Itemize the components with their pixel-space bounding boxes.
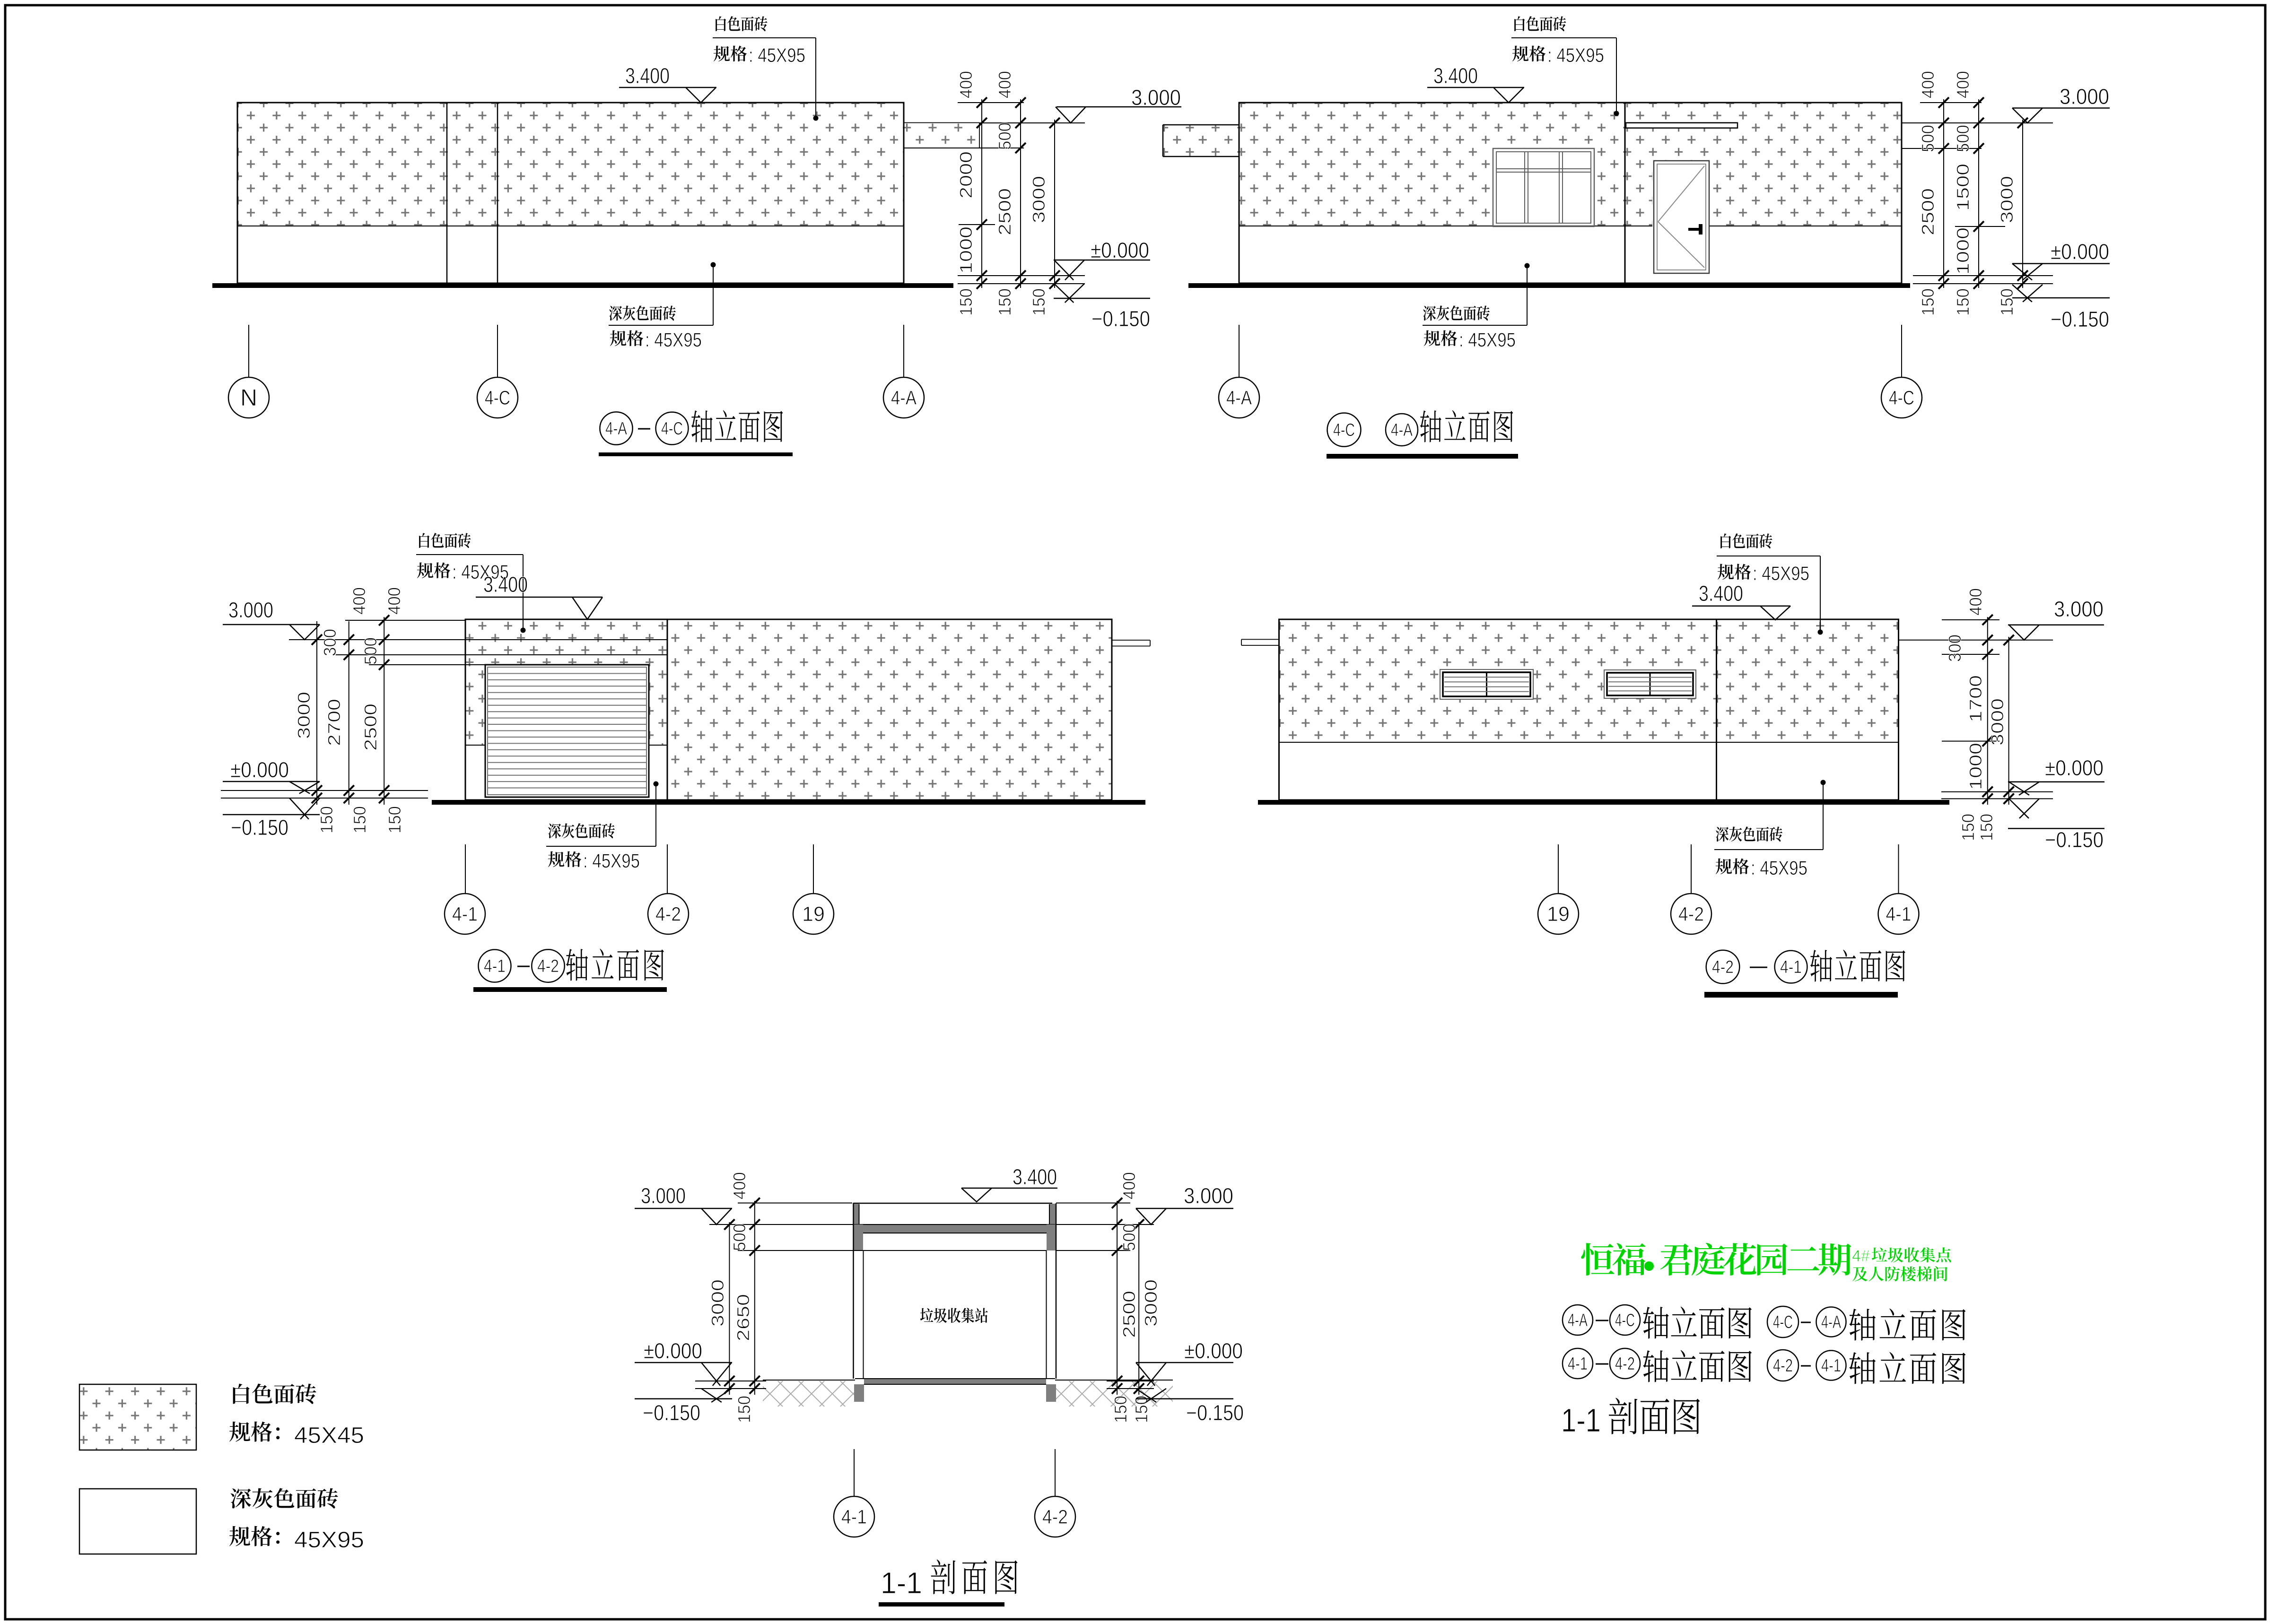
elev2 label dark tile (1423, 305, 1527, 351)
svg-text:150: 150 (1958, 814, 1978, 841)
elev1 axis stem 4-C (497, 325, 498, 377)
section parapet column left (854, 1204, 859, 1225)
elev1 axis stem N (248, 325, 249, 377)
svg-text:3000: 3000 (294, 692, 314, 739)
elev3 axis bubble 19 (793, 894, 834, 934)
svg-text:1700: 1700 (1966, 675, 1985, 722)
section dim 150 left (734, 1396, 754, 1423)
section dim 2650 left (733, 1294, 753, 1341)
svg-text:400: 400 (349, 587, 369, 615)
svg-text:1-1: 1-1 (881, 1566, 922, 1600)
project subtitle green 1 (1852, 1247, 1951, 1265)
elev2 leader dot white tile (1614, 38, 1619, 116)
elev4 dim 150 x2 (1958, 814, 1996, 841)
elev2 door M1 (1654, 161, 1709, 273)
svg-text:400: 400 (956, 71, 976, 98)
section level 3.000 left (635, 1183, 732, 1225)
svg-text:400: 400 (1918, 71, 1938, 98)
svg-text:2650: 2650 (733, 1294, 753, 1341)
elev2 pattern mask window (1493, 122, 1738, 226)
svg-text:4-1: 4-1 (1821, 1356, 1841, 1376)
elev2 dim 150 x3 (1918, 288, 2017, 316)
svg-text:400: 400 (1953, 71, 1973, 98)
svg-text:−0.150: −0.150 (2051, 307, 2109, 331)
elev2 extension lines (1902, 103, 2053, 284)
section dim 400 left (730, 1172, 749, 1199)
elev2 dim 3000 (1997, 176, 2017, 223)
svg-text:4-C: 4-C (1615, 1311, 1635, 1330)
elev4 dim 1000 (1966, 743, 1985, 790)
elev4 wall outline (1279, 619, 1899, 800)
elev2 dim line1 (1938, 97, 1949, 289)
elev1 level +-0.000 (1054, 238, 1150, 280)
svg-text:150: 150 (734, 1396, 754, 1423)
svg-text:150: 150 (1132, 1396, 1151, 1423)
svg-text:3.400: 3.400 (1699, 581, 1743, 606)
section footing right (1046, 1384, 1056, 1402)
section ground line left (763, 1380, 855, 1381)
svg-text:−0.150: −0.150 (2045, 827, 2104, 852)
svg-text:400: 400 (1966, 588, 1985, 616)
svg-text:1000: 1000 (956, 226, 976, 274)
svg-text:4-A: 4-A (605, 419, 628, 439)
elev1 dim text 150 x3 (956, 288, 1048, 316)
elev3 roller shutter door (485, 665, 649, 797)
svg-text:150: 150 (350, 806, 369, 834)
elev4 extension lines (1899, 620, 2053, 799)
elev4 axis bubble 19 (1538, 894, 1579, 934)
elev4 title bubbles (1706, 950, 1807, 984)
svg-text:150: 150 (385, 806, 404, 834)
section footing left (854, 1384, 864, 1402)
legend white tile spec (229, 1422, 364, 1448)
svg-text:±0.000: ±0.000 (2045, 756, 2104, 780)
elev3 label dark tile (546, 823, 656, 872)
elev1 title text (691, 410, 783, 443)
svg-text:2000: 2000 (956, 151, 976, 199)
svg-text:150: 150 (956, 288, 976, 316)
section dim 3000 left (708, 1279, 727, 1327)
svg-text:500: 500 (1918, 125, 1938, 152)
svg-text:4#: 4# (1852, 1247, 1870, 1265)
section level 3.400 (961, 1164, 1057, 1202)
elev3 extension lines (221, 620, 485, 798)
section title (881, 1559, 1018, 1600)
svg-text:400: 400 (1119, 1172, 1139, 1199)
section dim right line1 (1112, 1198, 1122, 1395)
legend dark tile spec (229, 1526, 364, 1553)
elev2 title text (1420, 410, 1513, 443)
elev3 garage pattern (466, 620, 667, 746)
elev1 tile band separator line (237, 226, 904, 226)
elev4 pattern mask louvers (1440, 669, 1696, 699)
elev1 column edge line x=1052 (axis 4-C) (497, 103, 498, 283)
elev2 label white tile (1511, 16, 1616, 66)
elev3 dim 400s (349, 587, 404, 615)
section wall left (854, 1203, 864, 1379)
section level -0.150 right (1136, 1389, 1244, 1425)
section beam block right (1047, 1225, 1056, 1251)
svg-text:150: 150 (1029, 288, 1048, 316)
svg-text:4-C: 4-C (1333, 420, 1355, 440)
svg-text:3.000: 3.000 (641, 1183, 686, 1208)
section roof top line (853, 1203, 1052, 1204)
legend dark tile swatch (79, 1489, 196, 1554)
svg-text:±0.000: ±0.000 (2051, 239, 2109, 264)
section dim 150 right x2 (1111, 1396, 1151, 1423)
svg-text:3000: 3000 (708, 1279, 727, 1327)
elev4 leader dot white tile (1818, 556, 1823, 635)
svg-text:150: 150 (1997, 288, 2017, 316)
svg-text:3.400: 3.400 (483, 572, 528, 597)
svg-text:3.000: 3.000 (2060, 84, 2109, 109)
elev4 roof slab protrusion left (1241, 639, 1279, 645)
elev4 title text (1810, 950, 1905, 982)
section wall right (1047, 1203, 1056, 1379)
svg-text:150: 150 (1953, 288, 1973, 316)
elev2 level +-0.000 (2012, 239, 2110, 280)
elev1 dim text 3000 (1029, 176, 1048, 223)
svg-text:4-A: 4-A (1226, 386, 1252, 408)
elev3 dim 2500 (361, 703, 380, 751)
svg-text:4-2: 4-2 (1615, 1354, 1635, 1374)
svg-text:4-2: 4-2 (655, 903, 681, 925)
elev3 title underline (473, 987, 667, 992)
svg-text:45X95: 45X95 (294, 1528, 364, 1553)
elev3 axis stem 4-2 (667, 844, 668, 894)
svg-text:3.000: 3.000 (228, 598, 273, 622)
elev2 title bubbles (1327, 413, 1418, 447)
svg-text:19: 19 (802, 903, 825, 926)
svg-text:4-C: 4-C (485, 386, 510, 408)
section level +-0.000 right (1136, 1338, 1243, 1386)
svg-text:400: 400 (384, 587, 404, 615)
svg-text:−0.150: −0.150 (643, 1400, 700, 1425)
svg-text:4-2: 4-2 (1678, 903, 1704, 925)
elev4 dim line2 (2004, 635, 2014, 805)
elev2 dim 1000 (1953, 227, 1973, 275)
elev2 axis stem 4-A (1239, 325, 1240, 377)
elev2 dim line2 (1973, 97, 1984, 289)
section level 3.000 right (1136, 1183, 1233, 1225)
svg-text:4-2: 4-2 (1042, 1505, 1068, 1528)
section ground line right (1055, 1380, 1173, 1381)
elev4 leader dot dark tile (1821, 780, 1826, 850)
svg-text:1500: 1500 (1953, 164, 1973, 211)
elev4 level 3.400 (1692, 581, 1790, 620)
elev4 dim 1700 (1966, 675, 1985, 722)
elev3 dim 3000 (294, 692, 314, 739)
elev2 dim 2500 (1918, 188, 1938, 235)
elev2 dim line3 (2017, 118, 2028, 289)
elev1 ground line (212, 283, 953, 288)
elev1 dim text 500 (995, 122, 1014, 150)
elev1 level 3.400 (619, 63, 716, 103)
elev3 roof slab protrusion right (1112, 640, 1150, 646)
elev1 label dark tile text (609, 305, 713, 351)
elev4 title underline (1704, 992, 1898, 998)
drawing list row 2 (1563, 1348, 1965, 1384)
elev1 wall outline (237, 103, 904, 283)
svg-text:N: N (240, 384, 257, 411)
svg-text:4-A: 4-A (891, 386, 917, 408)
svg-text:±0.000: ±0.000 (1091, 238, 1149, 262)
svg-text:3.000: 3.000 (2054, 597, 2104, 621)
elev1 leader dot white tile (813, 38, 819, 121)
elev3 axis bubble 4-1 (445, 894, 485, 934)
svg-text:: 45X95: : 45X95 (1753, 562, 1809, 584)
svg-text:±0.000: ±0.000 (644, 1338, 702, 1363)
elev3 dim 150 x3 (317, 806, 404, 834)
elev1 axis bubble N (228, 377, 269, 418)
section title underline (879, 1602, 1004, 1607)
section dim 400 right (1119, 1172, 1139, 1199)
section dim 500 left (730, 1224, 749, 1251)
section level -0.150 left (635, 1389, 732, 1425)
elev4 ground line (1258, 800, 1949, 805)
svg-text:400: 400 (995, 71, 1014, 98)
project subtitle green 2 (1852, 1266, 1947, 1281)
elev1 axis bubble 4-C (477, 377, 518, 418)
elev2 door canopy slab (1626, 123, 1737, 128)
elev1 dim text 2000 (956, 151, 976, 199)
elev1 level -0.150 (1054, 284, 1150, 331)
svg-text:2500: 2500 (1119, 1291, 1139, 1338)
elev3 level +-0.000 (223, 757, 320, 794)
elev1 leader dot dark tile (711, 262, 716, 326)
section dim left line1 (724, 1219, 734, 1395)
elev1 dim text 400 col1 (956, 71, 976, 98)
elev1 dim line 3 (1049, 118, 1060, 289)
elev3 dim 300 (320, 629, 340, 656)
svg-text:150: 150 (1111, 1396, 1130, 1423)
svg-text:4-C: 4-C (1773, 1312, 1793, 1332)
svg-text:4-2: 4-2 (537, 956, 559, 976)
elev4 level 3.000 (2008, 597, 2104, 640)
elev2 leader dot dark tile (1525, 263, 1530, 326)
section beam bottom line (863, 1250, 1047, 1251)
elev4 dim line1 (1982, 615, 1993, 805)
svg-text:3000: 3000 (1141, 1279, 1161, 1327)
elev1 axis stem 4-A (903, 325, 904, 377)
elev3 level 3.400 (476, 572, 602, 619)
svg-text:4-C: 4-C (661, 419, 683, 439)
elev3 garage pattern mask door (485, 665, 649, 745)
svg-text:−0.150: −0.150 (1186, 1400, 1244, 1425)
elev2 window W1 (1493, 148, 1594, 226)
svg-text:500: 500 (1953, 125, 1973, 152)
svg-text:400: 400 (730, 1172, 749, 1199)
elev3 dim line3 (379, 615, 389, 805)
svg-text:4-1: 4-1 (1886, 903, 1912, 925)
svg-text:: 45X95: : 45X95 (749, 44, 805, 66)
elev2 level 3.000 (2012, 84, 2110, 123)
drawing list row 3 (1561, 1398, 1700, 1439)
elev3 leader dot white tile (521, 555, 526, 633)
project title green (1581, 1243, 1851, 1276)
elev4 label dark tile (1714, 826, 1823, 879)
section axis stem 4-2 (1055, 1449, 1056, 1496)
elev3 title bubbles (479, 949, 565, 982)
elev2 dim 1500 (1953, 164, 1973, 211)
legend dark tile text (231, 1488, 338, 1509)
elev4 axis bubble 4-1 (1878, 894, 1919, 934)
elev3 garage bay outline (465, 619, 667, 800)
svg-text:2500: 2500 (361, 703, 380, 751)
svg-text:−0.150: −0.150 (1091, 306, 1150, 331)
svg-text:500: 500 (361, 637, 380, 665)
svg-text:3.400: 3.400 (1013, 1164, 1057, 1189)
elev2 dim 400s (1918, 71, 1973, 98)
elev2 white-tile pattern band (1163, 104, 1901, 226)
elev3 dim line2 (344, 621, 354, 805)
section dim 500 right (1119, 1224, 1139, 1251)
svg-text:300: 300 (1945, 634, 1964, 662)
elev3 dim 2700 (324, 699, 344, 746)
svg-text:: 45X95: : 45X95 (1547, 44, 1604, 66)
section dim 2500 right (1119, 1291, 1139, 1338)
svg-text:150: 150 (995, 288, 1014, 316)
svg-text:3000: 3000 (1988, 698, 2007, 746)
svg-text:4-2: 4-2 (1773, 1356, 1793, 1376)
svg-text:2500: 2500 (995, 188, 1014, 235)
elev3 level -0.150 (223, 798, 320, 840)
svg-text:: 45X95: : 45X95 (1459, 329, 1516, 351)
elev2 level -0.150 (2012, 285, 2110, 331)
svg-text:3.000: 3.000 (1131, 85, 1181, 110)
elev1 dim text 400 col2 (995, 71, 1014, 98)
section ext lines right (1056, 1203, 1154, 1389)
elev2 level 3.400 (1427, 63, 1524, 103)
svg-text:500: 500 (1119, 1224, 1139, 1251)
section roof slab (853, 1225, 1056, 1233)
section axis bubble 4-1 (834, 1496, 874, 1537)
section beam block left (854, 1225, 863, 1251)
elev4 wall pattern (1280, 620, 1898, 743)
elev2 roof slab protrusion left (1163, 125, 1239, 156)
legend white tile text (233, 1384, 316, 1404)
elev2 axis bubble 4-A (1219, 377, 1259, 418)
svg-text:±0.000: ±0.000 (1184, 1338, 1243, 1363)
elev2 wall joint line x=3436 (1624, 103, 1626, 283)
section axis bubble 4-2 (1035, 1496, 1075, 1537)
svg-text:4-A: 4-A (1821, 1312, 1841, 1332)
svg-text:1000: 1000 (1966, 743, 1985, 790)
section floor slab (855, 1379, 1055, 1384)
svg-text:3.000: 3.000 (1184, 1183, 1233, 1208)
svg-text:500: 500 (995, 122, 1014, 150)
drawing list row 1 (1563, 1305, 1965, 1340)
elev1 dim text 1000 (956, 226, 976, 274)
svg-text:4-1: 4-1 (841, 1505, 867, 1528)
elev3 title text (566, 949, 664, 981)
svg-text:4-1: 4-1 (484, 956, 506, 976)
elev3 level 3.000 (223, 598, 320, 640)
elev1 level 3.000 (1056, 85, 1181, 123)
elev3 big wall pattern (667, 620, 1112, 800)
elev1 extension lines (904, 103, 1085, 284)
elev1 title underline (599, 452, 793, 456)
svg-text:150: 150 (317, 806, 336, 834)
elev3 axis bubble 4-2 (648, 894, 689, 934)
elev3 ground line (432, 800, 1145, 805)
elev1 white-tile pattern band (238, 104, 980, 226)
elev2 axis stem 4-C (1901, 325, 1902, 377)
elev1 title bubbles (600, 412, 688, 444)
svg-text:4-1: 4-1 (452, 903, 478, 925)
elev4 axis bubble 4-2 (1671, 894, 1711, 934)
elev3 fascia line 2 (465, 654, 667, 655)
section axis stem 4-1 (854, 1449, 855, 1496)
section dim left line2 (750, 1198, 760, 1395)
svg-text:±0.000: ±0.000 (230, 757, 289, 782)
elev4 louver window LC2 (1604, 670, 1696, 698)
svg-text:4-2: 4-2 (1712, 957, 1734, 977)
elev4 axis stem 4-2 (1691, 844, 1692, 894)
section level +-0.000 left (635, 1338, 732, 1386)
svg-text:3000: 3000 (1029, 176, 1048, 223)
svg-text:500: 500 (730, 1224, 749, 1251)
section ground hatch right (1056, 1381, 1173, 1407)
elev3 label white tile (416, 533, 523, 583)
elev1 axis bubble 4-A (883, 377, 924, 418)
elev1 dim line 1 (977, 97, 987, 289)
elev2 title underline (1327, 454, 1518, 459)
elev4 tile band separator (1279, 742, 1899, 743)
section parapet column right (1049, 1204, 1056, 1225)
elev3 dim line1 (312, 621, 322, 805)
elev4 level +-0.000 (2008, 756, 2104, 795)
elev4 wall joint line (1716, 619, 1717, 800)
elev4 dim 400 (1966, 588, 1985, 616)
elev4 label white tile (1717, 533, 1820, 584)
svg-text:4-A: 4-A (1568, 1311, 1588, 1330)
elev2 tile band separator (1239, 226, 1902, 226)
elev3 fascia line 1 (465, 639, 667, 640)
legend white tile swatch (79, 1384, 196, 1450)
elev4 level -0.150 (2008, 799, 2104, 852)
elev3 big wall outline (667, 619, 1112, 800)
svg-text:45X45: 45X45 (294, 1423, 364, 1448)
svg-text:19: 19 (1547, 903, 1570, 926)
elev1 column edge line x=945 (446, 103, 448, 283)
elev3 axis stem 19 (813, 844, 814, 894)
elev4 dim 300 (1945, 634, 1964, 662)
section dim 3000 right (1141, 1279, 1161, 1327)
elev2 axis bubble 4-C (1881, 377, 1922, 418)
svg-text:2500: 2500 (1918, 188, 1938, 235)
section dim right line2 (1134, 1219, 1144, 1395)
elev1 roof slab protrusion right (904, 123, 979, 148)
elev1 dim line 2 (1015, 97, 1026, 289)
elev3 axis stem 4-1 (465, 844, 466, 894)
elev4 dim 3000 (1988, 698, 2007, 746)
svg-text:4-1: 4-1 (1780, 957, 1802, 977)
svg-text:1000: 1000 (1953, 227, 1973, 275)
svg-text:300: 300 (320, 629, 340, 656)
elev1 label white tile text (713, 16, 816, 66)
elev3 dim 500 (361, 637, 380, 665)
svg-text:150: 150 (1977, 814, 1996, 841)
section room label (920, 1308, 988, 1323)
svg-text:1-1: 1-1 (1561, 1402, 1601, 1439)
elev4 axis stem 4-1 (1898, 844, 1899, 894)
svg-text:3.400: 3.400 (625, 63, 670, 88)
svg-text:150: 150 (1918, 288, 1938, 316)
svg-text:: 45X95: : 45X95 (583, 850, 640, 872)
svg-text:4-A: 4-A (1391, 420, 1413, 440)
svg-text:2700: 2700 (324, 699, 344, 746)
